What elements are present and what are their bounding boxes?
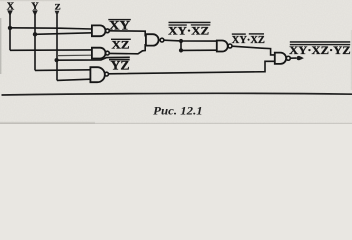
wire D4 output to splitter — [164, 39, 181, 42]
left edge scan shadow — [0, 18, 1, 74]
wire Y to gate D1 input 2 — [35, 33, 92, 35]
wire D6 output — [290, 57, 296, 59]
svg-text:XY·XZ: XY·XZ — [232, 34, 265, 46]
inner bar over XZ — [191, 24, 211, 25]
horizontal rule above caption — [2, 93, 352, 95]
inner bar over XY — [169, 24, 187, 25]
node Y input arrow — [32, 10, 38, 16]
node junction dot on X — [8, 26, 12, 30]
node junction dot splitter top — [179, 39, 183, 43]
wire splitter to gate D5 input 2 — [181, 49, 217, 51]
gate D2 NAND (X,Z) body — [92, 48, 106, 59]
svg-text:XY·XZ: XY·XZ — [168, 25, 209, 37]
gate D2 output bubble — [106, 51, 110, 55]
wire Z to gate D3 input 2 — [57, 79, 90, 80]
node X input arrow — [7, 10, 13, 16]
gate D6 output bubble — [286, 56, 290, 60]
svg-text:Z: Z — [55, 2, 61, 12]
gate D4 NAND body — [146, 34, 159, 45]
gate D3 output bubble — [105, 72, 109, 76]
gate D1 NAND (X,Y) body — [92, 25, 106, 36]
gate D5 NAND inverter body — [217, 41, 228, 52]
node Z input arrow — [55, 11, 60, 16]
gate D3 NAND (Y,Z) body — [90, 67, 104, 82]
wire Y vertical — [34, 14, 36, 70]
wire D3 output long run to gate D6 input 2 — [108, 61, 274, 74]
node junction dot on Z — [55, 58, 59, 62]
wire D2 output to gate D4 input 2 — [109, 45, 146, 54]
gate D5 output bubble — [228, 44, 232, 48]
label bar over XZ (gate D5 output) — [249, 33, 264, 34]
wire D5 output to gate D6 input 1 — [232, 46, 275, 55]
svg-text:XY: XY — [109, 18, 131, 33]
wire splitter to gate D5 input 1 — [181, 40, 217, 42]
wire Z to gate D2 input 2 (faint) — [57, 54, 92, 56]
wire X to gate D1 input 1 — [10, 28, 92, 29]
label overline XZ (gate D2) — [111, 39, 131, 40]
label YZ (gate D3 output, bar is the merged wire above) — [109, 59, 130, 61]
gate D4 output bubble — [160, 38, 164, 42]
label double overline over XY.XZ (gate D4 output) : outer bar — [169, 22, 211, 24]
wire Z vertical — [56, 15, 58, 81]
wire splitter down — [180, 41, 182, 50]
node junction dot splitter bottom — [179, 48, 183, 52]
wire from Z dot merging into YZ overline — [57, 57, 130, 60]
svg-text:Рис. 12.1: Рис. 12.1 — [153, 105, 203, 117]
label outer overline (final output) — [290, 41, 350, 43]
svg-text:XY·XZ·YZ: XY·XZ·YZ — [289, 45, 351, 57]
gate D1 output bubble — [106, 29, 110, 33]
label inner overline (final output) — [290, 44, 350, 45]
node output terminal dot — [297, 56, 301, 60]
label overline XY (gate D1) — [108, 19, 131, 20]
gate D6 NAND body — [275, 53, 286, 64]
paper background — [0, 0, 352, 124]
wire X to gate D2 input 1 — [10, 49, 92, 51]
wire Y to gate D3 input 1 — [35, 69, 90, 72]
svg-text:XZ: XZ — [112, 38, 130, 52]
svg-text:YZ: YZ — [111, 58, 130, 72]
label bar over XY (gate D5 output) — [232, 33, 246, 34]
wire D1 output to gate D4 input 1 — [109, 31, 146, 36]
node junction dot on Y — [33, 32, 37, 36]
node output arrow tip — [300, 56, 304, 60]
wire X vertical — [9, 14, 11, 50]
